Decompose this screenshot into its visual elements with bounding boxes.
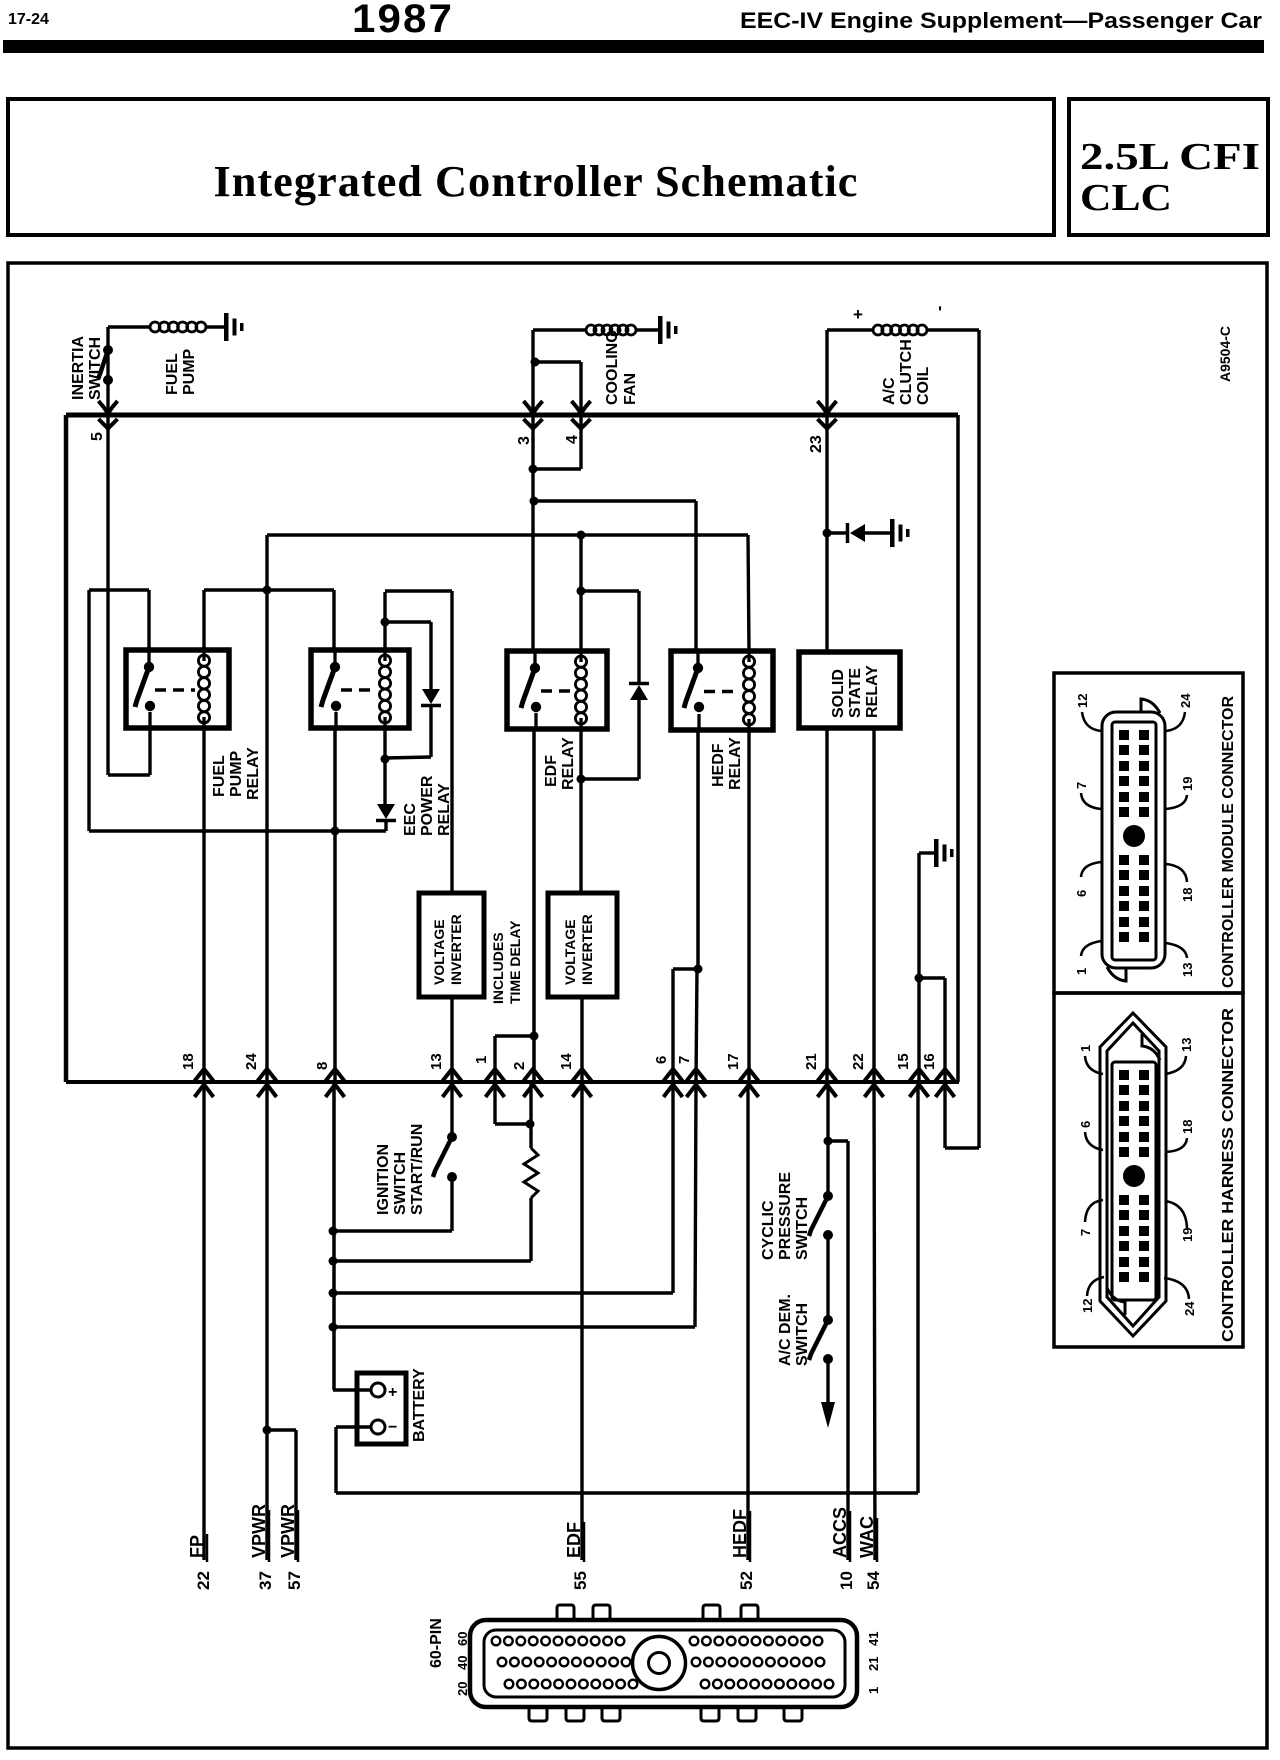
svg-text:VPWR: VPWR [278,1504,298,1558]
svg-text:1: 1 [1078,1045,1093,1052]
svg-text:CONTROLLER MODULE CONNECTOR: CONTROLLER MODULE CONNECTOR [1220,696,1237,988]
svg-text:12: 12 [1080,1299,1095,1313]
svg-text:5: 5 [89,432,106,441]
svg-text:57: 57 [285,1571,304,1590]
svg-text:VPWR: VPWR [249,1504,269,1558]
svg-text:COIL: COIL [915,367,932,405]
svg-text:EDF: EDF [564,1522,584,1558]
svg-text:54: 54 [864,1571,883,1590]
svg-text:VOLTAGE: VOLTAGE [562,919,578,985]
svg-text:3: 3 [516,436,533,445]
svg-text:8: 8 [314,1062,331,1070]
svg-text:4: 4 [564,435,581,444]
svg-text:VOLTAGE: VOLTAGE [431,919,447,985]
svg-text:+: + [388,1384,397,1401]
svg-text:A/C DEM.: A/C DEM. [777,1294,794,1366]
svg-text:15: 15 [895,1053,912,1070]
svg-text:16: 16 [921,1053,938,1070]
svg-text:37: 37 [256,1571,275,1590]
svg-text:6: 6 [653,1056,670,1064]
svg-text:2.5L CFI: 2.5L CFI [1080,136,1260,178]
svg-text:13: 13 [1180,963,1195,977]
svg-text:INVERTER: INVERTER [448,914,464,985]
svg-text:1: 1 [866,1687,881,1694]
svg-text:EDF: EDF [543,755,560,787]
svg-text:18: 18 [1180,888,1195,902]
svg-text:18: 18 [180,1053,197,1070]
svg-text:55: 55 [571,1571,590,1590]
svg-text:CLC: CLC [1080,177,1172,219]
svg-text:17-24: 17-24 [8,11,49,28]
svg-text:FUEL: FUEL [211,755,228,797]
svg-text:ACCS: ACCS [830,1507,850,1558]
svg-text:7: 7 [676,1056,693,1064]
svg-text:HEDF: HEDF [710,743,727,787]
svg-text:22: 22 [850,1053,867,1070]
svg-text:21: 21 [866,1657,881,1671]
svg-text:SWITCH: SWITCH [794,1197,811,1260]
svg-text:FUEL: FUEL [164,353,181,395]
svg-text:10: 10 [837,1571,856,1590]
svg-text:13: 13 [428,1053,445,1070]
svg-text:21: 21 [803,1053,820,1070]
svg-text:6: 6 [1074,890,1089,897]
svg-text:PUMP: PUMP [228,750,245,797]
svg-text:1987: 1987 [352,0,454,41]
svg-text:12: 12 [1075,694,1090,708]
svg-text:14: 14 [558,1053,575,1070]
svg-text:1: 1 [1074,968,1089,975]
svg-text:PUMP: PUMP [181,348,198,395]
svg-text:HEDF: HEDF [730,1509,750,1558]
svg-text:A9504-C: A9504-C [1217,326,1233,382]
svg-text:7: 7 [1078,1229,1093,1236]
svg-text:WAC: WAC [857,1516,877,1558]
svg-text:40: 40 [455,1656,470,1670]
svg-text:RELAY: RELAY [864,665,881,718]
svg-text:18: 18 [1180,1120,1195,1134]
svg-text:13: 13 [1179,1038,1194,1052]
svg-text:6: 6 [1078,1121,1093,1128]
svg-text:FP: FP [187,1535,207,1558]
svg-text:2: 2 [511,1062,528,1070]
svg-text:19: 19 [1180,777,1195,791]
svg-text:FAN: FAN [622,373,639,405]
svg-text:19: 19 [1180,1228,1195,1242]
svg-text:SWITCH: SWITCH [794,1303,811,1366]
svg-text:−: − [388,1419,397,1436]
svg-text:INVERTER: INVERTER [579,914,595,985]
svg-text:41: 41 [866,1632,881,1646]
svg-text:7: 7 [1074,782,1089,789]
svg-text:A/C: A/C [881,377,898,405]
svg-text:EEC: EEC [402,803,419,836]
svg-text:24: 24 [1182,1301,1197,1316]
svg-text:TIME DELAY: TIME DELAY [507,920,523,1004]
svg-text:PRESSURE: PRESSURE [777,1172,794,1260]
svg-text:EEC-IV Engine Supplement—Passe: EEC-IV Engine Supplement—Passenger Car [740,8,1262,33]
svg-text:STATE: STATE [847,668,864,718]
svg-text:RELAY: RELAY [560,737,577,790]
svg-text:1: 1 [473,1056,490,1064]
svg-text:Integrated Controller Schemati: Integrated Controller Schematic [214,157,859,206]
svg-text:START/RUN: START/RUN [409,1124,426,1215]
svg-text:COOLING: COOLING [604,330,621,405]
svg-text:+: + [853,305,863,324]
svg-text:CYCLIC: CYCLIC [760,1200,777,1260]
svg-text:SWITCH: SWITCH [392,1152,409,1215]
svg-text:RELAY: RELAY [727,737,744,790]
svg-text:52: 52 [737,1571,756,1590]
svg-text:24: 24 [1178,693,1193,708]
svg-text:CONTROLLER HARNESS CONNECTOR: CONTROLLER HARNESS CONNECTOR [1220,1008,1237,1342]
svg-text:23: 23 [808,435,825,453]
svg-text:INCLUDES: INCLUDES [490,932,506,1004]
svg-text:INERTIA: INERTIA [70,336,87,400]
svg-text:20: 20 [455,1682,470,1696]
svg-text:60: 60 [455,1632,470,1646]
svg-text:POWER: POWER [419,775,436,836]
svg-text:IGNITION: IGNITION [375,1144,392,1215]
svg-text:60-PIN: 60-PIN [428,1618,445,1668]
svg-text:RELAY: RELAY [245,747,262,800]
svg-text:SOLID: SOLID [830,669,847,718]
svg-text:CLUTCH: CLUTCH [898,339,915,405]
svg-text:ʹ: ʹ [938,303,942,322]
svg-text:17: 17 [725,1053,742,1070]
svg-text:BATTERY: BATTERY [411,1368,428,1442]
svg-text:22: 22 [194,1571,213,1590]
svg-text:24: 24 [243,1053,260,1070]
svg-text:SWITCH: SWITCH [87,337,104,400]
